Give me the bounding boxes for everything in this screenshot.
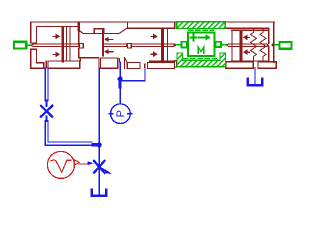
svg-text:P: P — [115, 110, 127, 117]
